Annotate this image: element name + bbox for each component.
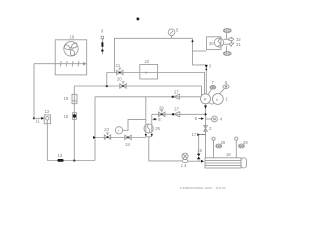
wire: right drop with connector 3 <box>193 38 207 65</box>
connector arrow 8 left <box>153 117 162 122</box>
line U: to compressor suction <box>95 96 201 98</box>
svg-text:24: 24 <box>125 142 130 147</box>
wire: condenser to node 11 <box>33 64 35 119</box>
svg-text:15: 15 <box>197 148 202 153</box>
wire: vertical 95 <box>94 97 96 161</box>
expansion valve 23 <box>104 127 110 139</box>
sight glass 18 <box>64 113 77 120</box>
svg-text:16: 16 <box>226 152 231 157</box>
service valve 14 <box>181 153 188 168</box>
line L: IHX suction line <box>152 113 205 115</box>
coil tick 3 <box>71 61 74 67</box>
condenser box 10 <box>55 35 86 75</box>
check valve 15 <box>197 135 203 162</box>
svg-text:30: 30 <box>209 41 214 46</box>
svg-text:18: 18 <box>64 114 69 119</box>
cap top <box>223 29 231 40</box>
solenoid valve 26 <box>159 105 165 116</box>
wire: line B horizontal <box>74 86 201 96</box>
sensor 4 <box>206 116 223 122</box>
port 7 <box>209 80 216 94</box>
valve 20 <box>117 77 126 89</box>
condenser coil line <box>34 63 84 65</box>
node 11 <box>33 117 41 123</box>
svg-text:≋: ≋ <box>145 70 148 75</box>
junction dot B <box>106 85 108 87</box>
control box 22 <box>140 59 158 79</box>
expansion valve 24 <box>125 135 131 147</box>
check valve 27 upper <box>172 90 180 100</box>
wire: IHX outlet down <box>149 137 182 161</box>
temp sensor t <box>115 127 122 134</box>
junction dot line L <box>204 113 206 115</box>
marker dot top <box>137 18 140 21</box>
wire: 14 to muffler <box>188 160 202 162</box>
line P2: evaporator feed <box>95 137 146 139</box>
wire: bottom run left <box>47 160 95 162</box>
svg-text:11: 11 <box>36 119 41 124</box>
svg-text:0.FRN4CONSUL.GIFU - TLS.IN: 0.FRN4CONSUL.GIFU - TLS.IN <box>180 186 226 190</box>
internal heat exchanger 25 <box>144 124 161 133</box>
svg-text:26: 26 <box>159 105 164 110</box>
svg-text:19: 19 <box>70 35 75 40</box>
service port 28 <box>212 137 226 158</box>
coil tick 1 <box>59 61 62 67</box>
svg-text:27: 27 <box>174 107 179 112</box>
junction arrow P2 <box>93 136 96 139</box>
valve 21 <box>116 63 124 75</box>
svg-text:20: 20 <box>117 77 122 82</box>
IHX outlet arrows <box>145 134 147 137</box>
expansion device 2 <box>204 126 213 132</box>
connector arrow 3 <box>205 64 212 69</box>
svg-text:21: 21 <box>116 63 121 68</box>
coupling R to 1 <box>209 103 214 104</box>
svg-text:28: 28 <box>221 140 226 145</box>
wire: arrow 3 to compressor body <box>205 69 207 94</box>
drier 19 <box>64 94 78 103</box>
svg-text:22: 22 <box>145 59 150 64</box>
valve 12 <box>44 109 50 124</box>
wire: line A horizontal <box>107 73 205 95</box>
pressure switch 5 <box>168 28 179 39</box>
connector arrow 8 right <box>195 116 204 121</box>
svg-text:23: 23 <box>104 127 109 132</box>
svg-text:17: 17 <box>192 132 197 137</box>
coil arrow <box>83 62 86 66</box>
svg-text:n: n <box>216 97 218 102</box>
junction block R <box>201 94 211 104</box>
sensor 9 <box>101 29 104 55</box>
coil tick 2 <box>65 61 68 67</box>
svg-text:19: 19 <box>64 96 69 101</box>
coil tick 4 <box>77 61 80 67</box>
svg-text:12: 12 <box>45 109 50 114</box>
arrow into muffler <box>201 160 204 163</box>
cap bottom <box>223 46 231 56</box>
wire: drier branch vertical <box>73 86 75 161</box>
flow arrow below R <box>204 106 207 109</box>
wire: R down to tank <box>205 104 207 158</box>
compressor box 30 <box>207 37 222 50</box>
arrow into 12 <box>41 117 44 120</box>
IHX liquid pipe <box>145 97 147 137</box>
wire: valve 12 down <box>46 124 48 161</box>
svg-text:27: 27 <box>174 90 179 95</box>
discharge port 32 <box>224 37 242 42</box>
compressor circle <box>214 38 223 47</box>
svg-text:25: 25 <box>155 126 160 131</box>
junction dot under top line <box>192 40 194 42</box>
junction dot at 74 <box>73 159 75 161</box>
damper 13 <box>57 153 63 162</box>
svg-text:29: 29 <box>243 140 248 145</box>
suction port 31 <box>224 42 242 47</box>
IHX suction pipe <box>151 114 153 137</box>
wire: node 11 to valve 12 <box>34 117 42 119</box>
port 6 <box>220 80 230 94</box>
svg-text:R: R <box>204 97 207 102</box>
svg-text:1 4: 1 4 <box>181 163 187 168</box>
wire: sensor t to IHX inlet <box>123 120 146 131</box>
wire: riser B to line A <box>106 73 108 87</box>
svg-text:31: 31 <box>236 42 241 47</box>
IHX bottom header <box>146 136 152 138</box>
muffler 16 <box>205 152 247 168</box>
svg-text:13: 13 <box>58 153 63 158</box>
motor circle 1 <box>212 94 228 105</box>
connector arrow 17 <box>192 132 206 137</box>
condenser fan <box>64 42 78 56</box>
wire: compressor suction stub <box>193 50 207 52</box>
check valve 27 lower <box>172 107 180 117</box>
wire: top loop left vertical <box>115 38 193 72</box>
service port 29 <box>235 137 249 158</box>
